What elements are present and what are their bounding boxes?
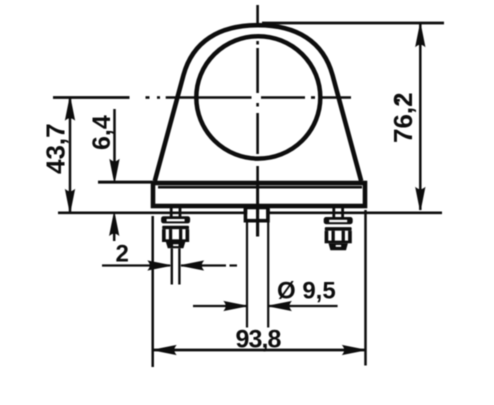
dimension 2 line left part (102, 264, 170, 266)
left bolt threaded stud (172, 248, 180, 284)
left bolt nut top bar (162, 226, 189, 229)
lens outline (196, 36, 320, 158)
left bolt washer (161, 216, 190, 223)
plate top extension line (for 6,4) (98, 181, 152, 184)
svg-text:43,7: 43,7 (41, 123, 71, 174)
left bolt stem (171, 206, 180, 217)
diameter 9,5 extension line left (246, 223, 248, 328)
dimension diameter 9,5 line right part (268, 305, 337, 307)
left bolt chamfer collar (166, 242, 185, 248)
center fixing bracket (244, 206, 270, 213)
right bolt nut top bar (325, 227, 352, 231)
vertical centerline solid through plate and stud (256, 181, 259, 237)
base plate inner lip line (158, 186, 362, 189)
svg-text:76,2: 76,2 (388, 92, 418, 143)
base plate rectangle (153, 183, 365, 206)
right bolt washer (324, 217, 353, 224)
lamp body dome outline (155, 25, 361, 181)
dimension diameter 9,5 line left part (193, 305, 247, 307)
horizontal centerline solid segment (43,7 extension) (53, 96, 130, 99)
top extension line from dome apex (262, 22, 444, 25)
right bolt stem (334, 206, 343, 218)
horizontal centerline dash-dot (146, 98, 400, 101)
svg-text:6,4: 6,4 (88, 115, 116, 150)
dimension 93,8 line (153, 349, 366, 352)
dimension 6,4 upper leader (113, 109, 116, 176)
svg-text:93,8: 93,8 (236, 326, 282, 354)
dimension 76,2 line (419, 24, 422, 210)
right bolt chamfer collar (329, 243, 348, 250)
dimension 93,8 right extension line (364, 210, 367, 366)
bottom extension line (datum under plate) (58, 211, 442, 214)
dimension 6,4 lower leader (113, 226, 116, 241)
diameter 9,5 extension line right (267, 223, 269, 328)
left bolt hex nut (162, 229, 189, 242)
dimension 93,8 left extension line (151, 216, 154, 367)
right bolt hex nut (325, 231, 352, 244)
dimension 2 line right part (181, 264, 226, 266)
dimension 43,7 line (69, 98, 72, 213)
vertical centerline dash-dot (256, 5, 259, 181)
svg-text:2: 2 (116, 241, 129, 268)
svg-text:Ø 9,5: Ø 9,5 (277, 278, 336, 305)
